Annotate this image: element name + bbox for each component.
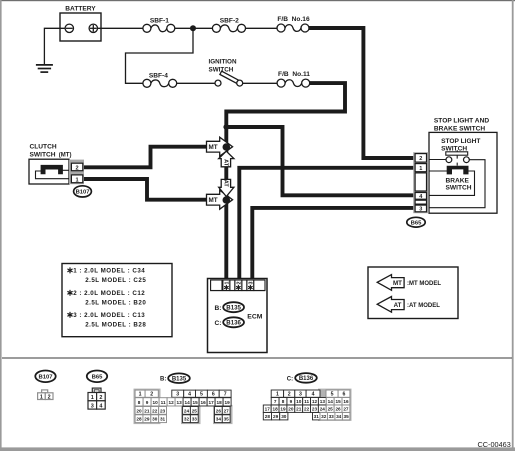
- svg-text:1 : 2.0L MODEL : C34: 1 : 2.0L MODEL : C34: [73, 268, 145, 275]
- svg-text:28: 28: [136, 417, 142, 422]
- svg-text:3 : 2.0L MODEL : C13: 3 : 2.0L MODEL : C13: [73, 312, 145, 319]
- svg-text:1: 1: [40, 395, 43, 401]
- svg-text:B:: B:: [160, 377, 166, 383]
- svg-text:B107: B107: [38, 375, 53, 381]
- svg-text:SBF-2: SBF-2: [220, 17, 239, 24]
- svg-text:2: 2: [99, 395, 102, 401]
- svg-text:B65: B65: [92, 375, 104, 381]
- svg-text:ECM: ECM: [247, 313, 262, 320]
- svg-text:B65: B65: [411, 221, 423, 227]
- svg-text:SBF-1: SBF-1: [150, 17, 169, 24]
- svg-text:F/B No.16: F/B No.16: [277, 16, 310, 23]
- svg-text:7: 7: [274, 399, 277, 404]
- svg-text:32: 32: [184, 417, 190, 422]
- svg-text:MT: MT: [209, 144, 218, 151]
- svg-text:1: 1: [419, 166, 422, 172]
- svg-text:B135: B135: [226, 304, 241, 311]
- svg-text:33: 33: [192, 417, 198, 422]
- svg-text:11: 11: [304, 399, 309, 404]
- svg-text:16: 16: [343, 399, 349, 404]
- svg-text:6: 6: [212, 392, 215, 398]
- svg-text:1: 1: [76, 177, 79, 183]
- svg-text:IGNITION: IGNITION: [209, 59, 237, 66]
- svg-text:25: 25: [192, 408, 198, 413]
- svg-text:21: 21: [144, 408, 150, 413]
- svg-text:34: 34: [216, 417, 222, 422]
- svg-text:BATTERY: BATTERY: [65, 6, 96, 13]
- svg-text:MT: MT: [393, 280, 402, 287]
- svg-text:34: 34: [336, 414, 342, 419]
- svg-text:STOP LIGHT: STOP LIGHT: [441, 138, 480, 145]
- svg-text:10: 10: [296, 399, 302, 404]
- svg-text:2: 2: [48, 395, 51, 401]
- svg-text:B:: B:: [215, 305, 222, 312]
- svg-text:8: 8: [138, 400, 141, 405]
- svg-text:1: 1: [91, 395, 94, 401]
- svg-text:CC-00463: CC-00463: [478, 440, 511, 449]
- svg-text:2: 2: [76, 166, 79, 172]
- svg-text:SWITCH: SWITCH: [441, 146, 467, 153]
- svg-text:28: 28: [265, 414, 271, 419]
- svg-text:B136: B136: [299, 376, 314, 382]
- svg-text:B135: B135: [172, 377, 187, 383]
- svg-text:2: 2: [150, 392, 153, 398]
- svg-text:22: 22: [304, 407, 310, 412]
- svg-text:29: 29: [273, 414, 279, 419]
- svg-text:31: 31: [160, 417, 166, 422]
- svg-text:AT: AT: [223, 159, 229, 167]
- svg-text:15: 15: [192, 400, 198, 405]
- svg-text:26: 26: [216, 408, 222, 413]
- svg-text:5: 5: [200, 392, 203, 398]
- svg-text::AT MODEL: :AT MODEL: [407, 303, 440, 309]
- svg-text:2: 2: [236, 282, 242, 285]
- svg-text:BRAKE SWITCH: BRAKE SWITCH: [434, 126, 486, 133]
- svg-text:SWITCH: SWITCH: [30, 151, 56, 158]
- svg-text:C:: C:: [215, 320, 222, 327]
- svg-text:24: 24: [184, 408, 190, 413]
- svg-text:9: 9: [290, 399, 293, 404]
- svg-text:AT: AT: [222, 180, 228, 188]
- svg-text:19: 19: [224, 400, 230, 405]
- svg-text:SWITCH: SWITCH: [446, 184, 472, 191]
- svg-text:30: 30: [281, 414, 287, 419]
- svg-text:SBF-4: SBF-4: [149, 73, 168, 80]
- svg-text:15: 15: [335, 399, 341, 404]
- svg-text:2.5L MODEL : B20: 2.5L MODEL : B20: [85, 300, 146, 307]
- svg-text:4: 4: [312, 392, 315, 398]
- svg-text:14: 14: [328, 399, 334, 404]
- svg-text:3: 3: [299, 392, 302, 398]
- svg-text:18: 18: [272, 407, 278, 412]
- svg-text:2.5L MODEL : C25: 2.5L MODEL : C25: [85, 277, 146, 284]
- svg-text:20: 20: [288, 407, 294, 412]
- svg-text:12: 12: [168, 400, 174, 405]
- svg-text:F/B No.11: F/B No.11: [278, 71, 310, 78]
- svg-text:6: 6: [343, 392, 346, 398]
- svg-text:24: 24: [320, 407, 326, 412]
- svg-text:2: 2: [288, 392, 291, 398]
- svg-text:9: 9: [146, 400, 149, 405]
- svg-text::MT MODEL: :MT MODEL: [407, 281, 441, 287]
- svg-text:31: 31: [314, 414, 320, 419]
- svg-text:16: 16: [200, 400, 206, 405]
- svg-text:4: 4: [188, 392, 191, 398]
- svg-text:30: 30: [152, 417, 158, 422]
- svg-text:25: 25: [328, 407, 334, 412]
- svg-text:12: 12: [312, 399, 318, 404]
- svg-text:23: 23: [312, 407, 318, 412]
- svg-text:2: 2: [419, 156, 422, 162]
- svg-text:18: 18: [216, 400, 222, 405]
- svg-text:2.5L MODEL : B28: 2.5L MODEL : B28: [85, 322, 146, 329]
- svg-text:1: 1: [276, 392, 279, 398]
- svg-text:7: 7: [224, 392, 227, 398]
- svg-text:17: 17: [208, 400, 214, 405]
- svg-text:35: 35: [344, 414, 350, 419]
- svg-text:33: 33: [329, 414, 335, 419]
- svg-text:21: 21: [296, 407, 302, 412]
- svg-text:MT: MT: [209, 197, 218, 204]
- svg-text:(MT): (MT): [59, 153, 72, 159]
- svg-text:AT: AT: [394, 302, 402, 309]
- svg-text:3: 3: [248, 282, 254, 285]
- svg-text:13: 13: [320, 399, 326, 404]
- svg-text:14: 14: [184, 400, 190, 405]
- svg-text:29: 29: [144, 417, 150, 422]
- svg-text:1: 1: [139, 392, 142, 398]
- svg-text:20: 20: [136, 408, 142, 413]
- svg-text:3: 3: [176, 392, 179, 398]
- svg-text:8: 8: [282, 399, 285, 404]
- svg-text:5: 5: [331, 392, 334, 398]
- svg-text:3: 3: [91, 403, 94, 409]
- svg-text:27: 27: [343, 407, 349, 412]
- svg-text:35: 35: [224, 417, 230, 422]
- svg-text:2 : 2.0L MODEL : C12: 2 : 2.0L MODEL : C12: [73, 290, 145, 297]
- svg-text:1: 1: [224, 282, 230, 285]
- svg-text:19: 19: [280, 407, 286, 412]
- svg-text:11: 11: [161, 400, 166, 405]
- svg-text:B107: B107: [76, 190, 90, 196]
- svg-text:23: 23: [160, 408, 166, 413]
- svg-text:32: 32: [321, 414, 327, 419]
- svg-text:CLUTCH: CLUTCH: [30, 143, 57, 150]
- svg-text:10: 10: [152, 400, 158, 405]
- svg-text:13: 13: [176, 400, 182, 405]
- svg-text:STOP LIGHT AND: STOP LIGHT AND: [434, 118, 489, 125]
- svg-text:17: 17: [265, 407, 271, 412]
- svg-text:3: 3: [419, 207, 422, 213]
- svg-text:SWITCH: SWITCH: [209, 67, 234, 74]
- svg-text:26: 26: [335, 407, 341, 412]
- svg-text:22: 22: [152, 408, 158, 413]
- svg-text:B136: B136: [226, 320, 241, 327]
- svg-text:C:: C:: [287, 377, 293, 383]
- svg-text:27: 27: [224, 408, 230, 413]
